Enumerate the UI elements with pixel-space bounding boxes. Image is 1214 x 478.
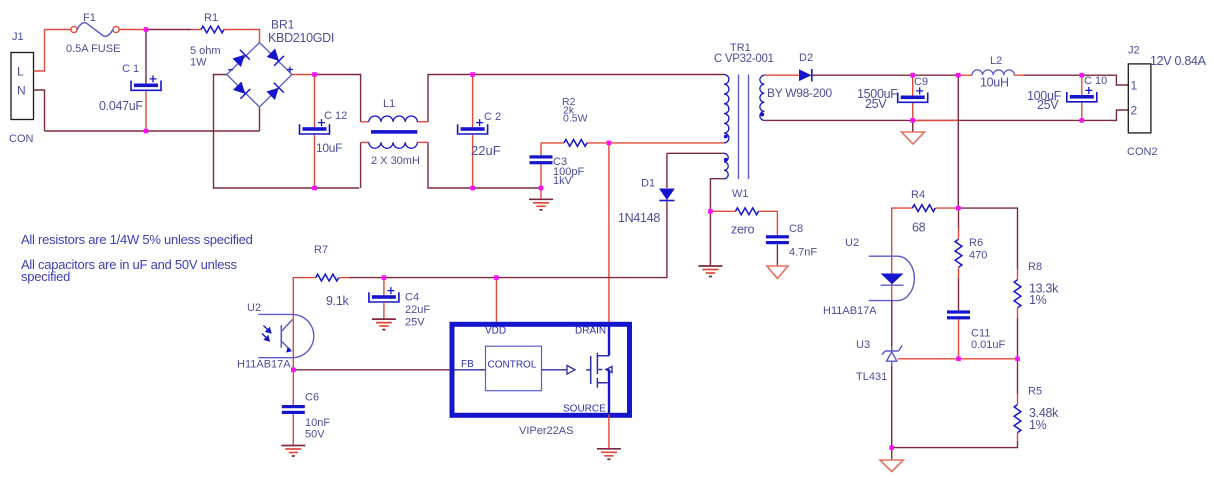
wire bridge minus rail: [214, 75, 360, 189]
junction C2 top: [470, 72, 475, 77]
resistor W1: [736, 208, 759, 215]
VIPer internal MOSFET: [586, 326, 612, 415]
TR1 secondary polarity dot: [760, 113, 764, 117]
wire C8 bottom lead: [776, 244, 778, 266]
svg-text:50V: 50V: [305, 429, 325, 441]
junction fuse / C1 / R1: [144, 27, 149, 32]
wire fuse to node A: [119, 29, 146, 31]
junction ground rail at TL431: [889, 445, 894, 450]
junction FB / opto / C6: [291, 368, 296, 373]
svg-text:C VP32-001: C VP32-001: [714, 53, 774, 65]
TR1 auxiliary winding: [724, 153, 728, 179]
capacitor C9: [898, 87, 928, 102]
wire R1 left stub: [191, 29, 201, 31]
wire bridge plus to L1: [292, 74, 315, 76]
junction R8 / R5 ref node: [1015, 357, 1020, 362]
svg-text:R1: R1: [204, 12, 218, 24]
resistor R7: [316, 274, 339, 281]
svg-text:L2: L2: [990, 55, 1002, 67]
svg-text:0.01uF: 0.01uF: [971, 339, 1006, 351]
wire N pin down to bottom rail: [34, 90, 45, 131]
wire C6 ground lead: [292, 414, 294, 446]
wire R4 node to R8: [958, 208, 1017, 269]
svg-text:VIPer22AS: VIPer22AS: [519, 425, 573, 437]
wire L1 bottom-left leg: [360, 142, 362, 188]
wire L1 top-left stub: [361, 121, 369, 123]
svg-text:1%: 1%: [1029, 293, 1047, 307]
svg-text:H11AB17A: H11AB17A: [237, 359, 291, 371]
svg-text:R7: R7: [314, 244, 328, 256]
wire C9 bottom lead: [912, 102, 914, 120]
wire aux top to D1: [667, 152, 724, 154]
optocoupler U2 LED side: [869, 256, 915, 300]
capacitor C10: [1067, 87, 1097, 102]
svg-text:68: 68: [912, 221, 926, 235]
ground at SOURCE: [597, 449, 621, 460]
diode D2: [799, 69, 812, 81]
capacitor C1: [131, 75, 161, 90]
wire drain node to primary: [609, 142, 724, 144]
wire R7 left corner: [293, 278, 315, 314]
svg-text:KBD210GDI: KBD210GDI: [268, 31, 334, 45]
resistor R1: [201, 26, 224, 33]
wire L pin to top rail: [34, 30, 45, 72]
svg-text:22uF: 22uF: [471, 143, 501, 158]
wire R8 top pin: [1017, 269, 1019, 280]
wire C1 top lead: [145, 30, 147, 84]
junction C10 bottom: [1080, 118, 1085, 123]
svg-text:C 1: C 1: [122, 63, 139, 75]
svg-text:C11: C11: [971, 328, 990, 340]
wire TL431 anode down: [891, 366, 893, 460]
svg-text:2 X 30mH: 2 X 30mH: [371, 155, 420, 167]
svg-text:R4: R4: [911, 189, 925, 201]
svg-text:CON2: CON2: [1127, 146, 1158, 158]
resistor R4: [912, 205, 935, 212]
junction auxiliary return: [708, 209, 713, 214]
svg-text:CONTROL: CONTROL: [488, 360, 537, 371]
svg-text:C 2: C 2: [484, 111, 501, 123]
junction C12 top: [312, 72, 317, 77]
capacitor C12: [300, 119, 330, 134]
wire C10 top lead: [1081, 75, 1083, 95]
wire R2 left stub: [541, 142, 564, 144]
svg-text:W1: W1: [732, 188, 749, 200]
wire L2 left stub: [958, 74, 972, 76]
svg-text:F1: F1: [83, 12, 96, 24]
wire C4 top lead: [383, 278, 385, 296]
L1 core bar: [371, 130, 417, 134]
resistor R6: [955, 239, 962, 267]
svg-text:H11AB17A: H11AB17A: [823, 305, 877, 317]
svg-text:R8: R8: [1028, 261, 1042, 273]
wire W1 to C8: [759, 211, 778, 235]
wire L1 bottom-left pin: [361, 141, 369, 143]
svg-text:25V: 25V: [405, 317, 425, 329]
wire R6 top stub: [958, 208, 960, 228]
wire opto column: [292, 314, 294, 406]
capacitor C6: [282, 405, 305, 414]
svg-text:2: 2: [1131, 104, 1138, 118]
svg-text:1%: 1%: [1029, 418, 1047, 432]
wire W1 left stub: [710, 210, 735, 212]
wire L1 top-right pin: [417, 121, 428, 123]
ground at C9: [902, 132, 925, 144]
svg-text:J2: J2: [1128, 45, 1140, 57]
svg-text:C 10: C 10: [1084, 75, 1107, 87]
svg-text:0.047uF: 0.047uF: [99, 99, 143, 113]
wire R8 bottom pin: [1017, 308, 1019, 318]
svg-text:10uF: 10uF: [316, 141, 342, 155]
wire R5 bottom to ground rail: [892, 441, 1018, 448]
svg-text:9.1k: 9.1k: [326, 294, 349, 308]
junction C10 top: [1080, 73, 1085, 78]
wire C12 bottom lead: [314, 135, 316, 188]
svg-text:10uH: 10uH: [980, 76, 1009, 90]
svg-text:C6: C6: [305, 392, 319, 404]
wire node A to R1: [146, 29, 191, 31]
wire SOURCE pin to ground: [608, 415, 610, 449]
wire C2 bottom lead: [472, 135, 474, 188]
wire aux bottom leg: [710, 179, 724, 212]
capacitor C3: [530, 155, 553, 164]
wire C12 top lead: [314, 75, 316, 128]
wire R1 to bridge top: [224, 30, 260, 43]
svg-text:L1: L1: [383, 98, 395, 110]
junction C9 top: [910, 73, 915, 78]
svg-text:N: N: [17, 84, 26, 98]
wire secondary bottom rail: [764, 110, 1128, 120]
ground at C3: [529, 199, 553, 210]
resistor R5: [1014, 405, 1021, 433]
svg-text:25V: 25V: [865, 97, 887, 111]
junction C12 bottom: [312, 186, 317, 191]
svg-text:R6: R6: [969, 237, 983, 249]
svg-text:specified: specified: [21, 269, 70, 284]
svg-text:BR1: BR1: [271, 18, 295, 32]
svg-text:U2: U2: [247, 302, 261, 314]
junction C4 top: [382, 275, 387, 280]
svg-text:1N4148: 1N4148: [618, 211, 660, 225]
fuse F1: [71, 23, 119, 37]
svg-text:12V 0.84A: 12V 0.84A: [1150, 54, 1207, 68]
svg-text:0.5W: 0.5W: [563, 113, 588, 125]
wire R5 bottom pin: [1017, 433, 1019, 441]
TR1 core: [739, 75, 749, 180]
wire C10 bottom lead: [1081, 102, 1083, 121]
wire C9 ground stub: [912, 120, 914, 132]
wire L1 bottom-right leg: [428, 142, 541, 188]
capacitor C2: [458, 119, 488, 134]
wire R5 top stub: [1017, 359, 1019, 394]
svg-text:D1: D1: [641, 178, 655, 190]
IC U1 VIPer22AS: [452, 324, 630, 415]
svg-text:U3: U3: [856, 339, 870, 351]
shunt regulator U3 TL431: [882, 346, 902, 367]
wire U2 LED column: [891, 256, 893, 351]
capacitor C11: [947, 310, 970, 319]
svg-text:SOURCE: SOURCE: [563, 404, 606, 415]
wire secondary top lead: [764, 74, 799, 76]
TR1 primary polarity dot: [724, 135, 728, 139]
junction C1 bottom: [144, 129, 149, 134]
wire R6 bottom pin: [958, 267, 960, 278]
junction drain node: [607, 141, 612, 146]
wire R6 to C11: [958, 278, 960, 310]
svg-text:C4: C4: [405, 292, 419, 304]
wire R5 top pin: [1017, 394, 1019, 405]
wire top rail to fuse: [45, 29, 72, 31]
svg-text:zero: zero: [731, 223, 754, 237]
wire FB net: [293, 369, 449, 371]
ground at C8: [767, 266, 788, 279]
svg-text:22uF: 22uF: [405, 304, 430, 316]
wire C3 bottom lead: [540, 164, 542, 199]
svg-text:0.5A FUSE: 0.5A FUSE: [66, 43, 120, 55]
wire aux ground stub: [709, 211, 711, 266]
wire AC bottom rail to bridge bottom: [45, 108, 260, 132]
svg-text:TL431: TL431: [856, 371, 887, 383]
svg-text:470: 470: [969, 250, 987, 262]
svg-text:VDD: VDD: [485, 326, 506, 337]
svg-text:U2: U2: [845, 237, 859, 249]
junction C11 bottom on ref rail: [956, 357, 961, 362]
optocoupler U2 phototransistor side: [258, 314, 314, 357]
svg-text:R5: R5: [1028, 386, 1042, 398]
TR1 secondary winding: [760, 75, 765, 120]
svg-text:FB: FB: [461, 359, 474, 370]
svg-text:5 ohm: 5 ohm: [190, 45, 221, 57]
wire D1 cathode down to VDD rail: [349, 153, 667, 277]
svg-text:L: L: [17, 65, 24, 79]
resistor R2: [564, 140, 587, 147]
inductor L1 top winding: [369, 116, 418, 122]
wire R2 right to drain node: [587, 142, 609, 144]
wire R8 bottom to ref node: [1017, 318, 1019, 359]
wire ref rail: [898, 358, 1018, 360]
svg-text:1kV: 1kV: [553, 175, 573, 187]
svg-text:1: 1: [1131, 79, 1138, 93]
connector J1: [11, 53, 34, 120]
ground at auxiliary winding: [698, 266, 722, 277]
wire secondary ground segment: [913, 119, 959, 121]
wire R6 top pin: [958, 228, 960, 239]
wire L1 top-right to HV rail: [428, 75, 724, 122]
wire C4 ground lead: [383, 302, 385, 319]
wire L1 bottom-right pin: [417, 141, 428, 143]
ground at C4: [372, 319, 396, 330]
wire R4 right stub: [935, 207, 958, 209]
junction C2 bottom: [470, 186, 475, 191]
wire R4 left leg: [892, 208, 913, 256]
wire C3 top lead: [540, 143, 542, 155]
svg-text:4.7nF: 4.7nF: [789, 247, 817, 259]
bridge rectifier BR1: [227, 43, 293, 108]
wire C9 top lead: [912, 75, 914, 95]
diode D1: [659, 189, 675, 201]
wire C11 bottom lead: [958, 319, 960, 358]
wire C1 bottom lead: [145, 91, 147, 132]
wire feedback tap vertical: [957, 75, 959, 208]
svg-text:DRAIN: DRAIN: [575, 326, 606, 337]
connector J2: [1128, 64, 1151, 133]
capacitor C4: [369, 287, 399, 302]
wire L2 to J2: [1024, 75, 1128, 85]
wire R7 right stub: [339, 277, 349, 279]
svg-text:10nF: 10nF: [305, 417, 330, 429]
junction feedback tap: [956, 73, 961, 78]
svg-text:1W: 1W: [190, 57, 207, 69]
wire D2 to L2: [812, 74, 959, 76]
svg-text:C8: C8: [789, 223, 803, 235]
junction VDD pin: [494, 275, 499, 280]
svg-text:J1: J1: [12, 31, 24, 43]
svg-text:CON: CON: [9, 133, 34, 145]
wire U2 to TL431: [891, 301, 893, 346]
inductor L2: [972, 70, 1014, 75]
capacitor C8: [766, 235, 789, 244]
svg-text:All resistors are 1/4W 5% unle: All resistors are 1/4W 5% unless specifi…: [21, 232, 253, 247]
wire drain vertical: [608, 143, 610, 323]
svg-text:25V: 25V: [1037, 98, 1059, 112]
inductor L1 bottom winding: [369, 142, 418, 148]
transformer TR1 primary winding: [724, 75, 729, 143]
ground at C6: [281, 446, 305, 457]
junction C3 bottom: [539, 186, 544, 191]
svg-text:C 12: C 12: [324, 110, 347, 122]
resistor R8: [1014, 280, 1021, 308]
svg-text:C9: C9: [914, 76, 928, 88]
junction C9 bottom: [910, 118, 915, 123]
wire L2 right stub: [1014, 74, 1024, 76]
svg-text:D2: D2: [799, 52, 813, 64]
wire C2 top lead: [472, 75, 474, 128]
svg-text:BY W98-200: BY W98-200: [767, 86, 832, 100]
wire VDD pin: [495, 278, 497, 323]
junction R4 / R6 node: [956, 206, 961, 211]
ground at TL431: [880, 460, 903, 472]
wire plus rail to L1 corner: [315, 75, 361, 122]
TR1 auxiliary polarity dot: [724, 158, 728, 162]
VIPer internal control arrow: [542, 366, 576, 375]
